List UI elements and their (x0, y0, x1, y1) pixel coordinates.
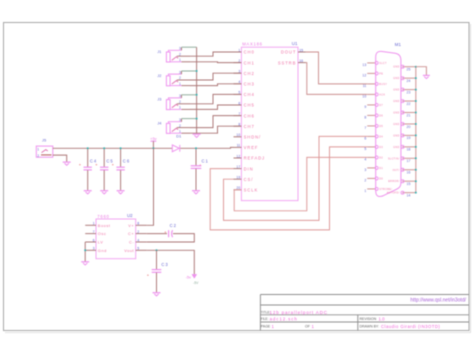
ground symbol below J5 (63, 162, 71, 165)
svg-text:SSTRB: SSTRB (278, 60, 296, 65)
junction M1 bus pin 21 (415, 112, 417, 114)
svg-text:U1: U1 (292, 41, 298, 46)
svg-text:23: 23 (407, 90, 411, 94)
svg-text:INIT/: INIT/ (393, 169, 400, 172)
chip U2 7660 voltage converter (85, 213, 147, 259)
junction jack bus J4 (196, 118, 198, 120)
svg-text:D6: D6 (379, 114, 383, 117)
svg-text:U2: U2 (127, 213, 133, 218)
svg-text:1: 1 (364, 189, 366, 193)
svg-text:19: 19 (407, 136, 411, 140)
svg-text:12: 12 (362, 74, 366, 78)
M1 pin 22 (393, 100, 416, 106)
svg-text:2: 2 (37, 154, 39, 158)
junction M1 bus pin 17 (415, 157, 417, 159)
svg-text:D7: D7 (379, 104, 383, 107)
wire M1 bus to ground (416, 67, 427, 76)
svg-text:10: 10 (236, 133, 240, 137)
ground symbol right of M1 (423, 75, 430, 78)
svg-text:11: 11 (363, 84, 367, 88)
svg-text:4: 4 (364, 158, 366, 162)
junction M1 bus pin 22 (415, 100, 417, 102)
wire SSTRB to M1 pin 10 (306, 63, 367, 95)
svg-text:CH1: CH1 (244, 60, 255, 65)
svg-text:Gnd: Gnd (98, 248, 107, 253)
svg-text:22: 22 (407, 102, 411, 106)
svg-text:C-: C- (129, 240, 134, 245)
junction Vout C3 (156, 249, 158, 251)
junction rail +5V / U2 V+ (152, 147, 154, 149)
junction rail C1 (195, 147, 197, 149)
capacitor C5 (95, 148, 114, 194)
svg-text:3: 3 (179, 118, 181, 122)
capacitor C2 (147, 223, 177, 237)
junction M1 bus pin 25 (415, 66, 417, 68)
wire J4 tip to CH6 (190, 116, 241, 128)
svg-text:12: 12 (236, 154, 240, 158)
svg-text:GND: GND (393, 112, 399, 115)
svg-text:1: 1 (238, 48, 240, 52)
svg-text:12b parallelport ADC: 12b parallelport ADC (270, 310, 328, 315)
svg-text:8: 8 (137, 222, 139, 226)
svg-text:ACK: ACK (379, 93, 385, 96)
svg-text:C1: C1 (202, 159, 209, 164)
svg-text:SLCTIN/: SLCTIN/ (388, 157, 400, 160)
svg-text:D5: D5 (379, 125, 383, 128)
junction rail C5 (103, 147, 105, 149)
svg-text:7: 7 (238, 112, 240, 116)
M1 pin 1 (364, 187, 392, 193)
svg-text:J1: J1 (157, 49, 161, 54)
svg-text:16: 16 (407, 171, 411, 175)
capacitor C4 (79, 148, 98, 194)
junction M1 bus pin 23 (415, 89, 417, 91)
svg-text:3: 3 (179, 70, 181, 74)
svg-text:3: 3 (179, 47, 181, 51)
svg-text:GND: GND (393, 134, 399, 137)
wire J2 ring to CH3 (190, 84, 241, 86)
wire J3 tip to CH4 (190, 94, 241, 103)
junction M1 bus pin 16 (415, 169, 417, 171)
wire J4 ring to CH7 (190, 126, 241, 133)
svg-text:2: 2 (238, 59, 240, 63)
svg-text:SHDN/: SHDN/ (244, 135, 262, 140)
svg-text:CH4: CH4 (244, 92, 255, 97)
svg-text:5: 5 (364, 147, 366, 151)
svg-text:7: 7 (93, 230, 95, 234)
M1 pin 4 (364, 156, 383, 162)
svg-text:J2: J2 (157, 73, 161, 78)
connector J2 (audio jack) (157, 70, 190, 85)
svg-text:2: 2 (179, 100, 181, 104)
connector J3 (audio jack) (157, 94, 190, 109)
wire J4 sleeve to ground bus (182, 118, 197, 120)
wire +V rail J5 to D1 anode (53, 147, 173, 149)
svg-text:17: 17 (407, 159, 411, 163)
M1 pin 23 (393, 88, 416, 94)
connector J1 (audio jack) (157, 47, 190, 62)
svg-text:CH3: CH3 (244, 82, 255, 87)
svg-text:SLCT: SLCT (379, 62, 387, 65)
wire J2 sleeve to ground bus (182, 70, 197, 72)
svg-text:VREF: VREF (244, 145, 259, 150)
svg-text:D1: D1 (379, 167, 383, 170)
svg-text:http://www.qsl.net/in3otd/: http://www.qsl.net/in3otd/ (410, 297, 466, 303)
svg-text:3: 3 (179, 94, 181, 98)
svg-text:C2: C2 (170, 223, 177, 228)
svg-text:GND: GND (393, 77, 399, 80)
M1 ground bus wire (415, 67, 417, 193)
svg-text:OF: OF (305, 325, 310, 329)
M1 pin 14 (387, 191, 416, 197)
svg-text:1: 1 (179, 106, 181, 110)
svg-text:4: 4 (137, 238, 139, 242)
svg-text:GND: GND (393, 123, 399, 126)
svg-text:CS/: CS/ (244, 177, 254, 182)
svg-text:-5v: -5v (186, 275, 191, 280)
M1 pin 9 (364, 103, 383, 109)
M1 pin 12 (362, 72, 383, 78)
diode D1 (172, 134, 181, 152)
svg-text:18: 18 (407, 148, 411, 152)
svg-text:J3: J3 (157, 97, 161, 102)
svg-text:1: 1 (93, 222, 95, 226)
svg-text:Vout: Vout (124, 248, 134, 253)
M1 pin 6 (364, 135, 383, 141)
svg-text:BUSY: BUSY (379, 83, 387, 86)
wire J1 ring to CH1 (190, 61, 241, 64)
svg-text:DRAWN BY:: DRAWN BY: (360, 325, 380, 329)
op-amp U1 MAX186 ADC (234, 41, 306, 200)
M1 pin 25 (393, 65, 416, 71)
capacitor C3 (147, 250, 169, 296)
svg-text:17: 17 (236, 165, 240, 169)
svg-text:4: 4 (238, 80, 240, 84)
svg-text:ERROR/: ERROR/ (388, 180, 399, 183)
svg-text:3: 3 (238, 70, 240, 74)
ground symbol below U2 (81, 262, 89, 265)
wire CS/ to M1 pin 6 (224, 136, 368, 220)
svg-text:2: 2 (364, 179, 366, 183)
svg-text:M1: M1 (395, 42, 402, 47)
svg-text:D2: D2 (379, 156, 383, 159)
junction rail C6 (120, 147, 122, 149)
capacitor C1 (191, 148, 209, 194)
svg-text:5: 5 (238, 91, 240, 95)
svg-text:Claudio Girardi (IN3OTD): Claudio Girardi (IN3OTD) (381, 324, 440, 329)
svg-text:D4: D4 (379, 135, 383, 138)
svg-text:14: 14 (407, 193, 411, 197)
svg-text:-5V: -5V (193, 281, 199, 285)
svg-text:CH7: CH7 (244, 124, 255, 129)
connector J5 (power jack) (36, 138, 53, 158)
power symbol +5V (150, 136, 157, 148)
M1 pin 3 (364, 166, 383, 172)
junction M1 bus pin 14 (415, 192, 417, 194)
wire U2 Vout to -5V (147, 250, 195, 274)
svg-text:DIN: DIN (244, 166, 254, 171)
svg-text:2: 2 (179, 52, 181, 56)
title block (260, 295, 469, 331)
svg-text:CH6: CH6 (244, 113, 255, 118)
svg-text:9: 9 (364, 105, 366, 109)
svg-text:2: 2 (179, 76, 181, 80)
M1 pin 7 (364, 124, 383, 130)
svg-text:V+: V+ (128, 223, 134, 228)
svg-text:SCLK: SCLK (244, 188, 259, 193)
svg-text:16: 16 (299, 59, 303, 63)
svg-text:1: 1 (37, 147, 39, 151)
svg-text:19: 19 (236, 176, 240, 180)
M1 pin 10 (362, 93, 385, 99)
svg-text:15: 15 (407, 182, 411, 186)
M1 pin 24 (393, 77, 416, 83)
svg-text:7: 7 (364, 126, 366, 130)
power symbol -5V (186, 274, 200, 285)
capacitor C6 (112, 148, 131, 194)
svg-text:24: 24 (407, 79, 411, 83)
connector J4 (audio jack) (157, 118, 190, 133)
svg-text:GND: GND (393, 146, 399, 149)
wire DOUT to M1 pin 11 (306, 52, 367, 84)
svg-text:CH5: CH5 (244, 103, 255, 108)
svg-text:13: 13 (362, 63, 366, 67)
M1 pin 15 (388, 180, 416, 186)
svg-text:10: 10 (362, 95, 366, 99)
M1 pin 20 (393, 122, 416, 128)
svg-text:21: 21 (407, 113, 411, 117)
M1 pin 2 (364, 177, 383, 183)
svg-text:adc12.sch: adc12.sch (270, 316, 298, 321)
svg-text:15: 15 (299, 48, 303, 52)
wire SCLK to M1 pin 4 (233, 189, 235, 191)
wire J2 tip to CH2 (190, 73, 241, 80)
svg-text:3: 3 (364, 168, 366, 172)
svg-text:25: 25 (407, 68, 411, 72)
svg-text:+5v: +5v (150, 136, 157, 141)
svg-text:REFADJ: REFADJ (244, 156, 265, 161)
wire J3 sleeve to ground bus (182, 94, 197, 96)
svg-text:6: 6 (364, 137, 366, 141)
junction M1 bus pin 19 (415, 134, 417, 136)
M1 pin 16 (393, 168, 416, 174)
svg-text:DOUT: DOUT (281, 50, 296, 55)
svg-text:7660: 7660 (97, 214, 109, 219)
svg-text:8: 8 (364, 116, 366, 120)
junction U2 gnd (84, 249, 86, 251)
junction rail C4 (87, 147, 89, 149)
svg-text:2: 2 (137, 230, 139, 234)
svg-text:REVISION: REVISION (360, 317, 377, 321)
connector M1 DB25 (376, 42, 402, 196)
svg-text:FILE:: FILE: (261, 317, 269, 321)
svg-text:C3: C3 (161, 262, 168, 267)
svg-text:6: 6 (238, 101, 240, 105)
M1 pin 11 (363, 82, 388, 88)
M1 pin 21 (393, 111, 416, 117)
junction M1 bus pin 18 (415, 146, 417, 148)
M1 pin 18 (393, 145, 416, 151)
M1 pin 5 (364, 145, 383, 151)
wire C2 to U2 C- (147, 234, 195, 242)
svg-text:6: 6 (93, 238, 95, 242)
svg-text:AUTOFD/: AUTOFD/ (387, 192, 400, 195)
svg-text:2: 2 (179, 124, 181, 128)
jack ground bus wire (196, 47, 198, 133)
svg-text:1: 1 (179, 58, 181, 62)
wire J1 sleeve to ground bus (182, 46, 197, 48)
svg-text:20: 20 (407, 125, 411, 129)
svg-text:11: 11 (237, 144, 241, 148)
svg-text:GND: GND (393, 89, 399, 92)
wire DIN to M1 pin 5 (210, 147, 367, 230)
svg-text:LV: LV (98, 240, 104, 245)
svg-text:C+: C+ (128, 231, 134, 236)
junction M1 bus pin 20 (415, 123, 417, 125)
svg-text:8: 8 (238, 123, 240, 127)
svg-text:3: 3 (93, 247, 95, 251)
svg-text:STROBE/: STROBE/ (379, 188, 392, 191)
junction jack bus J3 (196, 94, 198, 96)
wire U2 V+ to +5V rail (147, 148, 154, 225)
svg-text:D1: D1 (176, 134, 181, 139)
ground symbol jack bus (193, 134, 201, 137)
svg-text:MAX186: MAX186 (242, 42, 263, 47)
M1 pin 8 (364, 114, 383, 120)
junction M1 bus pin 24 (415, 77, 417, 79)
junction jack bus J2 (196, 70, 198, 72)
svg-text:C6: C6 (123, 159, 130, 164)
M1 pin 17 (388, 157, 416, 163)
svg-text:1: 1 (179, 82, 181, 86)
svg-text:D3: D3 (379, 146, 383, 149)
wire J5 pin2 to ground (53, 155, 67, 162)
svg-text:1.0: 1.0 (379, 316, 386, 321)
wire U2 LV+Gnd to ground (84, 242, 86, 262)
wire D1 cathode to VREF pin 11 (180, 146, 233, 149)
svg-text:GND: GND (393, 66, 399, 69)
svg-text:Boost: Boost (98, 223, 111, 228)
svg-text:PE: PE (379, 72, 383, 75)
svg-text:5: 5 (137, 247, 139, 251)
svg-text:PAGE: PAGE (261, 325, 271, 329)
wire J3 ring to CH5 (190, 105, 241, 109)
svg-text:Osc: Osc (98, 231, 107, 236)
svg-text:D0: D0 (379, 177, 383, 180)
junction M1 bus pin 15 (415, 180, 417, 182)
svg-text:GND: GND (393, 100, 399, 103)
svg-text:CH0: CH0 (244, 50, 255, 55)
M1 pin 13 (362, 61, 387, 67)
wire J1 tip to CH0 (190, 52, 241, 56)
svg-text:CH2: CH2 (244, 71, 255, 76)
M1 pin 19 (393, 134, 416, 140)
svg-text:J5: J5 (42, 138, 46, 143)
